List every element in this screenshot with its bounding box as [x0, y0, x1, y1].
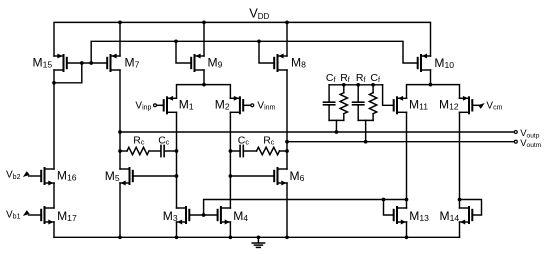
label M2 [215, 98, 230, 112]
node M15 drain junction [52, 81, 56, 85]
transistor M13 [394, 207, 407, 224]
node tail junction [202, 83, 206, 87]
capacitor Cf1 [323, 85, 334, 121]
node VDD junction M7 [118, 21, 122, 25]
resistor Rf1 [340, 85, 347, 121]
transistor M5 [120, 168, 133, 185]
wire M13 gate loop [384, 200, 394, 216]
label M5 [105, 169, 120, 183]
label Rc right [263, 134, 275, 146]
label Voutp [520, 128, 540, 139]
label M12 [439, 98, 459, 112]
capacitor Cc left [161, 145, 164, 156]
label Vinm [257, 100, 275, 111]
label M14 [440, 209, 460, 223]
wire M17 source to ground rail [53, 222, 55, 237]
wire Vb2 lead [29, 175, 42, 177]
node ground rail M6 [285, 235, 289, 239]
transistor M9 [191, 54, 204, 71]
label Cc left [158, 134, 170, 146]
wire M15 drain to M16 [53, 70, 55, 169]
transistor M17 [41, 207, 54, 224]
node ground rail M5 [118, 235, 122, 239]
wire M10 drain to tail [430, 70, 432, 85]
ground symbol [252, 237, 264, 247]
node CMFB tail junction [429, 83, 433, 87]
node Cc tap on M2 drain [229, 149, 233, 153]
wire M8 gate tap [259, 41, 274, 63]
wire Voutp line [120, 131, 514, 133]
transistor M2 [230, 96, 243, 113]
transistor M6 [274, 168, 287, 185]
wire M3 source to ground rail [176, 222, 178, 237]
wire M9 source to VDD [203, 22, 205, 56]
transistor M14 [460, 207, 473, 224]
wire ground rail [54, 236, 460, 238]
label Vb1 [6, 209, 21, 220]
terminal Voutp circle [514, 131, 517, 134]
node M6 gate tap [229, 174, 233, 178]
wire Cc-Rc right branch [230, 150, 287, 152]
wire M14 drain bar [460, 200, 482, 216]
node M8 gate tap [257, 39, 261, 43]
wire M5 gate lead [133, 175, 177, 177]
node sense bar Rf2 [371, 83, 375, 87]
transistor M7 [107, 54, 120, 71]
node ground rail M4 [229, 235, 233, 239]
node sense stem 1 [335, 130, 339, 134]
terminal Voutm circle [514, 140, 517, 143]
wire M8 drain to M6 drain [286, 70, 288, 169]
transistor M3 [177, 207, 190, 224]
wire sense bottom bar 2 [358, 119, 373, 121]
wire M15 diode connection [54, 63, 82, 83]
wire M5 source to ground rail [119, 183, 121, 237]
wire M1 gate lead [157, 104, 164, 106]
node M14 drain junction [458, 198, 462, 202]
node ground rail M3 [175, 235, 179, 239]
wire M9 gate tap [176, 41, 191, 63]
wire sense stem 2 [365, 120, 367, 141]
label M1 [179, 98, 194, 112]
wire sense to M11 gate [383, 85, 394, 106]
resistor Rc right [257, 147, 280, 155]
wire M6 gate lead [230, 175, 274, 177]
node ground rail stem [257, 235, 261, 239]
resistor Rf2 [369, 85, 376, 121]
wire Voutm line [287, 141, 514, 143]
wire M6 source to ground rail [286, 183, 288, 237]
capacitor Cc right [240, 145, 243, 156]
label Rf1 [340, 72, 350, 84]
terminal Vinp circle [154, 104, 157, 107]
label M11 [409, 98, 428, 112]
wire M3-M4 gate link [189, 214, 217, 216]
transistor M4 [218, 207, 231, 224]
wire Vb1 lead [29, 214, 42, 216]
wire M1 drain to M3 drain [176, 112, 178, 208]
node M13 gate loop tap [382, 198, 386, 202]
node M9 gate tap [174, 39, 178, 43]
node Rc tap left [118, 149, 122, 153]
wire M12 drain to M14 [459, 112, 461, 208]
capacitor Cf2 [353, 85, 364, 121]
node ground rail M13 [405, 235, 409, 239]
wire tail bar first stage [177, 85, 231, 99]
node VDD junction M8 [285, 21, 289, 25]
node VDD junction M9 [202, 21, 206, 25]
wire M16 to M17 [53, 183, 55, 208]
wire M2 drain to M4 drain [229, 112, 231, 208]
wire Vcm lead [472, 104, 479, 106]
wire CMFB sense top bar [329, 84, 383, 86]
wire M14 source to ground rail [459, 222, 461, 237]
wire sense stem 1 [335, 120, 337, 132]
wire M7 drain to M5 drain [119, 70, 121, 169]
label Cc right [238, 134, 250, 146]
transistor M15 [54, 54, 67, 71]
wire M7 source to VDD [119, 22, 121, 56]
terminal Vb1 arrow [23, 210, 30, 216]
node gate link junction B [89, 61, 93, 65]
node M3-M4 gate junction [202, 213, 206, 217]
label Vcm [486, 100, 502, 111]
label Voutm [520, 138, 542, 149]
node Rc tap right [285, 149, 289, 153]
transistor M11 [394, 96, 407, 113]
label Vinp [135, 100, 151, 111]
wire M4 source to ground rail [229, 222, 231, 237]
wire Rc-Cc left branch [120, 150, 177, 152]
transistor M16 [41, 168, 54, 185]
label M9 [208, 56, 223, 70]
wire tail bar CMFB [407, 85, 460, 99]
label M8 [291, 56, 306, 70]
label Vb2 [6, 170, 21, 181]
node sense bar Cf2 [356, 83, 360, 87]
label Cf1 [326, 72, 336, 84]
label M7 [125, 56, 140, 70]
node Voutm line start [285, 140, 289, 144]
label M16 [57, 168, 77, 182]
label M3 [163, 209, 178, 223]
node M13 drain junction [405, 198, 409, 202]
label M17 [57, 209, 77, 223]
wire M13 source to ground rail [406, 222, 408, 237]
label Rc left [133, 134, 145, 146]
label M15 [33, 56, 53, 70]
transistor M12 [460, 96, 473, 113]
wire M2 gate lead [243, 104, 250, 106]
transistor M10 [418, 54, 431, 71]
node sense stem 2 [364, 140, 368, 144]
wire M15-M7 gate link [67, 62, 107, 64]
label VDD [249, 6, 269, 21]
node Cc tap on M1 drain [175, 149, 179, 153]
terminal Vinm circle [251, 104, 254, 107]
label M4 [233, 209, 248, 223]
node Voutp line start [118, 130, 122, 134]
node sense bar Rf1 [342, 83, 346, 87]
wire M11 drain to M13 [406, 112, 408, 208]
wire M9 drain to tail [203, 70, 205, 85]
wire sense bottom bar 1 [329, 119, 344, 121]
terminal Vb2 arrow [23, 171, 30, 177]
label M6 [290, 169, 305, 183]
label M13 [409, 209, 429, 223]
transistor M8 [274, 54, 287, 71]
label Rf2 [356, 72, 366, 84]
wire M8 source to VDD [286, 22, 288, 56]
terminal Vcm arrow [478, 103, 485, 109]
label Cf2 [370, 72, 380, 84]
wire gate bias rail [91, 41, 418, 63]
wire CMFB gate line [204, 200, 407, 216]
wire VDD rail [54, 22, 431, 56]
node gate link junction A [80, 61, 84, 65]
label M10 [434, 56, 454, 70]
transistor M1 [164, 96, 177, 113]
resistor Rc left [127, 147, 149, 155]
node M5 gate tap [175, 174, 179, 178]
